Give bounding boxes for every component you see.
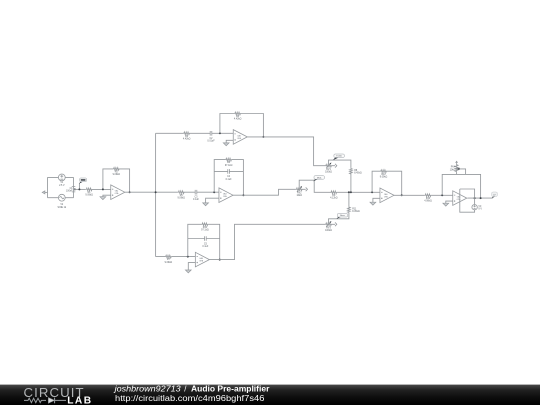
resistor R11 (bass mix, vertical) xyxy=(348,206,360,213)
wire input to R1 xyxy=(74,188,86,190)
svg-text:Mids: Mids xyxy=(317,177,321,179)
capacitor C3 xyxy=(193,190,200,201)
capacitor C5 (OA4 feedback) xyxy=(202,236,209,248)
svg-text:http://circuitlab.com/c4m96bgh: http://circuitlab.com/c4m96bghf7s46 xyxy=(115,394,264,403)
ground (input left) xyxy=(45,191,48,193)
svg-text:9.09kΩ: 9.09kΩ xyxy=(165,262,173,264)
feedback wires OA4 (R parallel C) xyxy=(188,224,220,259)
wire OA4 out to bass pot xyxy=(209,224,325,259)
summing nodes xyxy=(348,191,350,193)
ground at OA2 + input xyxy=(226,140,233,143)
op-amp OA5 (summing) xyxy=(380,188,394,203)
svg-text:97.1kΩ: 97.1kΩ xyxy=(201,230,209,232)
resistor R7 xyxy=(165,255,173,264)
ground at OA6 + input xyxy=(446,201,453,203)
svg-text:9.09kΩ: 9.09kΩ xyxy=(113,174,121,176)
callout flag Treble xyxy=(333,154,345,160)
svg-text:LAB: LAB xyxy=(67,396,92,405)
node OA5 output xyxy=(401,194,403,196)
capacitor C4 (OA3 feedback) xyxy=(226,169,233,181)
wire OA5 out through R13 xyxy=(394,194,453,196)
wire R1 to op-amp OA1 xyxy=(92,188,110,190)
resistor R4 (OA2 feedback) xyxy=(234,112,242,121)
wire OA3 out to mid pot xyxy=(233,189,296,195)
svg-text:8.45kΩ: 8.45kΩ xyxy=(352,211,360,213)
callout flag Mids xyxy=(313,176,324,182)
svg-text:9.09kΩ: 9.09kΩ xyxy=(380,176,388,178)
svg-text:8.45kΩ: 8.45kΩ xyxy=(354,173,362,175)
svg-text:Treble: Treble xyxy=(336,155,343,158)
feedback wire OA1 xyxy=(103,169,130,192)
resistor R2 (OA1 feedback) xyxy=(113,168,121,177)
voltage source V1 xyxy=(58,174,65,187)
voltage source V2 xyxy=(58,194,67,209)
node treble input xyxy=(219,132,221,134)
svg-text:0.1uF: 0.1uF xyxy=(226,179,233,181)
potentiometer RV2 (mids) xyxy=(296,186,308,197)
svg-text:100nF: 100nF xyxy=(66,191,73,193)
svg-text:Bass: Bass xyxy=(340,215,345,217)
input source loop wires xyxy=(48,177,74,197)
node final feedback xyxy=(441,194,443,196)
main output wire and bus xyxy=(125,133,178,256)
resistor R12 (OA5 feedback) xyxy=(380,170,388,179)
ground at OA5 + input xyxy=(373,198,380,202)
capacitor C1 (mic coupling on right edge) xyxy=(66,187,75,193)
resistor R1 xyxy=(85,188,93,197)
svg-text:2.5 V: 2.5 V xyxy=(59,185,65,187)
wire R9 to summing node xyxy=(337,191,380,193)
resistor R10 (OA4 feedback) xyxy=(201,223,209,232)
resistor R3 xyxy=(183,132,191,141)
callout flag Bass xyxy=(336,214,347,220)
svg-text:100kΩ: 100kΩ xyxy=(325,172,332,174)
wire OA2 out to treble pot xyxy=(247,137,325,166)
output wire OA6 xyxy=(467,197,492,199)
svg-text:9 V: 9 V xyxy=(478,209,482,211)
node OA1 output xyxy=(129,191,131,193)
svg-text:10kΩ: 10kΩ xyxy=(450,169,456,171)
node OA2 output xyxy=(262,136,264,138)
node OA3 output xyxy=(242,194,244,196)
ground at OA3 + input xyxy=(206,198,219,203)
svg-text:9.09kΩ: 9.09kΩ xyxy=(177,197,185,199)
feedback wire OA5 xyxy=(372,171,402,195)
footer bar xyxy=(0,385,540,405)
node OA4 output xyxy=(219,259,221,261)
op-amp OA3 xyxy=(219,188,233,203)
svg-text:100kΩ: 100kΩ xyxy=(325,230,332,232)
wiper wire RV2 to R9 xyxy=(299,180,330,192)
node flag IN xyxy=(79,178,86,189)
mid branch: resistor R5 xyxy=(177,191,185,200)
resistor R6 (OA3 feedback) xyxy=(225,158,233,167)
wire R5 to C3 to OA3 xyxy=(185,191,219,193)
op-amp OA1 xyxy=(111,185,125,200)
wiper wire RV1 to R8 xyxy=(329,160,351,192)
svg-text:4.42kΩ: 4.42kΩ xyxy=(183,139,191,141)
potentiometer RV1 (treble) xyxy=(325,163,337,174)
battery loop box xyxy=(460,189,475,212)
feedback wire OA2 xyxy=(220,114,264,137)
capacitor C2 xyxy=(207,131,215,143)
op-amp OA6 xyxy=(453,191,467,206)
svg-text:4.99kΩ: 4.99kΩ xyxy=(424,201,432,203)
svg-text:97.1kΩ: 97.1kΩ xyxy=(225,165,233,167)
wiper wire RV3 to R11 xyxy=(329,192,349,223)
node flag OUT xyxy=(492,192,498,198)
svg-text:Audio Pre-amplifier: Audio Pre-amplifier xyxy=(191,385,269,394)
node (mic output) xyxy=(74,188,76,190)
resistor R8 (treble mix, vertical) xyxy=(350,168,362,175)
svg-text:joshbrown92713: joshbrown92713 xyxy=(113,385,181,394)
feedback wires OA3 (R parallel C) xyxy=(214,160,243,196)
op-amp OA2 xyxy=(233,130,247,145)
bass branch wire xyxy=(156,256,196,258)
feedback wire OA6 with volume pot xyxy=(442,161,480,198)
svg-text:4.12kΩ: 4.12kΩ xyxy=(330,198,338,200)
ground at OA4 + input xyxy=(188,263,195,270)
battery V3 xyxy=(472,205,482,211)
ground at OA1 + input xyxy=(103,195,111,197)
treble branch wire xyxy=(156,132,234,134)
op-amp OA4 xyxy=(195,252,209,267)
node mid input xyxy=(213,191,215,193)
svg-text:SINE 1k: SINE 1k xyxy=(58,207,67,209)
svg-text:0.01uF: 0.01uF xyxy=(207,141,215,143)
svg-text:10kΩ: 10kΩ xyxy=(296,195,302,197)
resistor R9 (mid mix) xyxy=(330,191,338,200)
potentiometer RV4 (volume, vertical) xyxy=(450,161,460,172)
logo resistor-diode drawing xyxy=(24,398,66,404)
svg-text:0.1uF: 0.1uF xyxy=(193,199,200,201)
svg-text:0.1uF: 0.1uF xyxy=(202,246,209,248)
node bass input xyxy=(187,256,189,258)
potentiometer RV3 (bass) xyxy=(325,221,337,232)
resistor R13 xyxy=(424,194,432,203)
svg-text:4.42kΩ: 4.42kΩ xyxy=(234,119,242,121)
svg-text:9.09kΩ: 9.09kΩ xyxy=(85,195,93,197)
